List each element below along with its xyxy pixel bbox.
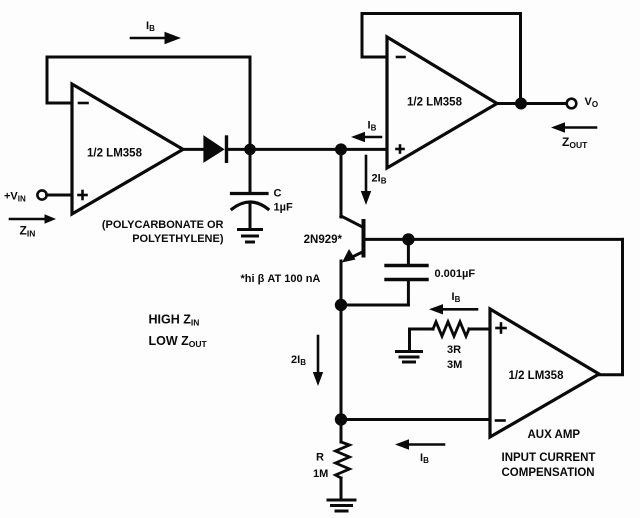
svg-text:1M: 1M xyxy=(313,468,328,480)
wire aux amp output riser xyxy=(599,239,623,374)
impedance arrow ZOUT xyxy=(551,122,596,132)
resistor 3R 3M xyxy=(410,322,491,351)
node A (diode/cap junction) xyxy=(244,144,256,156)
op-amp U1 1/2 LM358 (input buffer) xyxy=(72,84,183,214)
svg-text:(POLYCARBONATE OR: (POLYCARBONATE OR xyxy=(102,219,224,231)
wire cap to node E xyxy=(341,304,408,307)
current arrow IB (bottom) xyxy=(395,439,444,449)
svg-text:COMPENSATION: COMPENSATION xyxy=(502,467,595,479)
wire node B to U2 + input xyxy=(341,148,387,151)
svg-text:*hi β AT 100 nA: *hi β AT 100 nA xyxy=(241,273,321,285)
terminal +VIN xyxy=(37,190,72,199)
svg-text:R: R xyxy=(316,452,324,464)
svg-text:1/2 LM358: 1/2 LM358 xyxy=(87,148,143,160)
wire U1 feedback loop xyxy=(47,57,250,149)
resistor R 1M xyxy=(336,420,350,500)
current arrow IB (aux + input) xyxy=(429,304,477,314)
impedance arrow ZIN xyxy=(10,214,56,224)
svg-text:0.001µF: 0.001µF xyxy=(435,268,476,280)
wire node B down to transistor collector xyxy=(340,149,343,217)
terminal VO xyxy=(567,99,577,109)
wire U2 output xyxy=(497,102,566,105)
node B (U2 input junction) xyxy=(335,143,347,155)
ground (cap C) xyxy=(239,230,262,243)
node C (U2 output) xyxy=(515,98,527,110)
current arrow IB (U2 input) xyxy=(351,132,381,142)
svg-text:1µF: 1µF xyxy=(274,202,293,214)
svg-text:C: C xyxy=(274,188,282,200)
svg-text:AUX AMP: AUX AMP xyxy=(528,429,581,441)
svg-text:POLYETHYLENE): POLYETHYLENE) xyxy=(132,233,224,245)
ground (R) xyxy=(328,500,355,511)
current arrow 2IB (lower) xyxy=(313,336,323,386)
wire U2 feedback loop xyxy=(362,14,521,104)
node E (emitter junction) xyxy=(335,299,347,311)
current arrow 2IB (upper) xyxy=(361,156,371,205)
capacitor 0.001uF xyxy=(386,239,427,305)
op-amp U2 1/2 LM358 (output buffer) xyxy=(387,37,497,168)
current arrow IB (top) xyxy=(131,32,181,44)
svg-text:1/2 LM358: 1/2 LM358 xyxy=(407,97,463,109)
wire node A to node B xyxy=(250,148,341,151)
ground (3R) xyxy=(397,352,422,363)
svg-text:3R: 3R xyxy=(447,344,461,356)
op-amp U3 1/2 LM358 (aux amp) xyxy=(490,309,599,437)
wire diode cathode to node A xyxy=(228,148,250,151)
capacitor C 1uF xyxy=(232,149,269,229)
diode D1 xyxy=(204,137,226,161)
svg-text:3M: 3M xyxy=(447,359,462,371)
svg-text:2N929*: 2N929* xyxy=(304,234,343,246)
svg-text:INPUT CURRENT: INPUT CURRENT xyxy=(502,452,596,464)
wire node F to aux - input xyxy=(341,418,490,421)
node D (base junction) xyxy=(402,233,414,245)
wire U1 output xyxy=(183,148,204,151)
transistor Q1 2N929 xyxy=(341,216,364,263)
wire Q1 emitter down to node F xyxy=(340,261,343,420)
node F (bottom junction) xyxy=(335,413,347,425)
svg-text:1/2 LM358: 1/2 LM358 xyxy=(509,370,565,382)
wire Q1 base to aux amp feedback xyxy=(365,238,623,241)
